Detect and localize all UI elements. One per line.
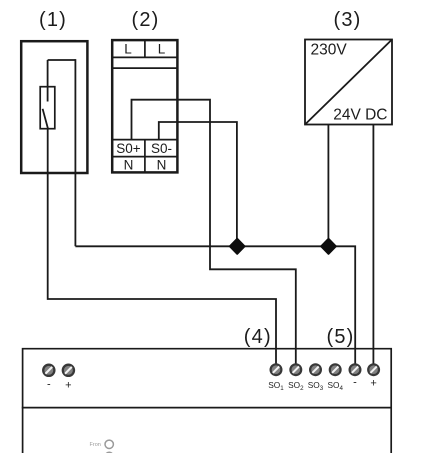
wire box1 right side down to 24V bus [74, 59, 76, 246]
svg-text:L: L [124, 42, 132, 57]
svg-text:-: - [47, 379, 51, 391]
svg-text:(2): (2) [131, 9, 159, 31]
terminal screw SO1 [271, 364, 282, 375]
terminal screw SO4 [330, 364, 341, 375]
terminal screw SO2 [290, 364, 301, 375]
wire PSU plus to terminal + [372, 125, 374, 364]
gas meter enclosure box 1 [21, 41, 87, 173]
svg-text:L: L [158, 42, 166, 57]
wire PSU minus to junction node B [327, 125, 329, 243]
svg-text:(3): (3) [333, 9, 361, 31]
device brand logo [90, 440, 114, 453]
svg-text:S0+: S0+ [116, 141, 141, 156]
svg-text:-: - [353, 377, 357, 389]
svg-text:+: + [370, 378, 376, 390]
terminal screw left minus [43, 365, 54, 376]
wire box1 internal top [48, 59, 76, 61]
terminal screw left plus [63, 365, 74, 376]
bus wire 24V to terminal minus [75, 246, 355, 363]
svg-text:230V: 230V [311, 42, 348, 59]
energy manager device body [23, 349, 392, 453]
svg-text:N: N [124, 158, 134, 173]
junction node A [230, 239, 245, 254]
terminal screw plus [368, 364, 379, 375]
svg-text:(1): (1) [39, 9, 67, 31]
svg-text:S0-: S0- [151, 141, 172, 156]
wire S0+ to terminal SO2 [132, 100, 296, 364]
terminal screw SO3 [310, 364, 321, 375]
svg-text:+: + [65, 380, 71, 392]
meter inner separator lines [111, 40, 179, 173]
svg-text:(4): (4) [244, 326, 272, 348]
power supply box 3 [305, 40, 392, 125]
wire S0- to junction node A [159, 122, 237, 243]
wire reed switch to terminal SO1 [48, 129, 276, 364]
reed switch contact S0 [40, 60, 55, 129]
junction node B [321, 239, 336, 254]
svg-text:24V DC: 24V DC [333, 107, 387, 124]
electricity meter box 2 [112, 40, 177, 172]
svg-text:Fron: Fron [90, 442, 101, 448]
device front panel separator [22, 407, 392, 409]
svg-text:(5): (5) [326, 326, 354, 348]
svg-text:N: N [157, 158, 167, 173]
terminal screw minus [350, 364, 361, 375]
